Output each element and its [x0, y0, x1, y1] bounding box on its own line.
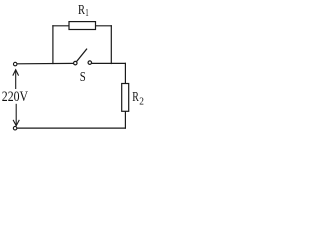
svg-text:2: 2: [139, 97, 144, 108]
switch S lever: [77, 49, 87, 62]
wire right vertical to R2: [124, 63, 126, 84]
wire left loop vertical: [52, 25, 54, 64]
label R1: [78, 3, 89, 19]
wire switch to right corner: [92, 62, 126, 64]
svg-text:220V: 220V: [2, 89, 29, 105]
label R2: [132, 90, 144, 108]
terminal top (source): [13, 62, 17, 66]
wire left terminal to switch: [17, 62, 74, 64]
arrow down toward bottom terminal: [13, 104, 19, 126]
wire top-left lead to R1: [52, 25, 69, 27]
arrow up toward top terminal: [13, 70, 19, 89]
svg-text:1: 1: [85, 8, 89, 19]
svg-text:S: S: [80, 70, 86, 85]
terminal bottom (source): [13, 126, 17, 130]
resistor R1: [69, 22, 96, 30]
wire right loop vertical: [110, 25, 112, 64]
resistor R2: [122, 84, 129, 112]
wire bottom: [17, 127, 126, 129]
switch S left contact: [74, 61, 78, 65]
wire R2 to bottom corner: [124, 111, 126, 128]
switch S right contact: [88, 61, 92, 65]
wire R1 to top-right corner: [96, 25, 112, 27]
